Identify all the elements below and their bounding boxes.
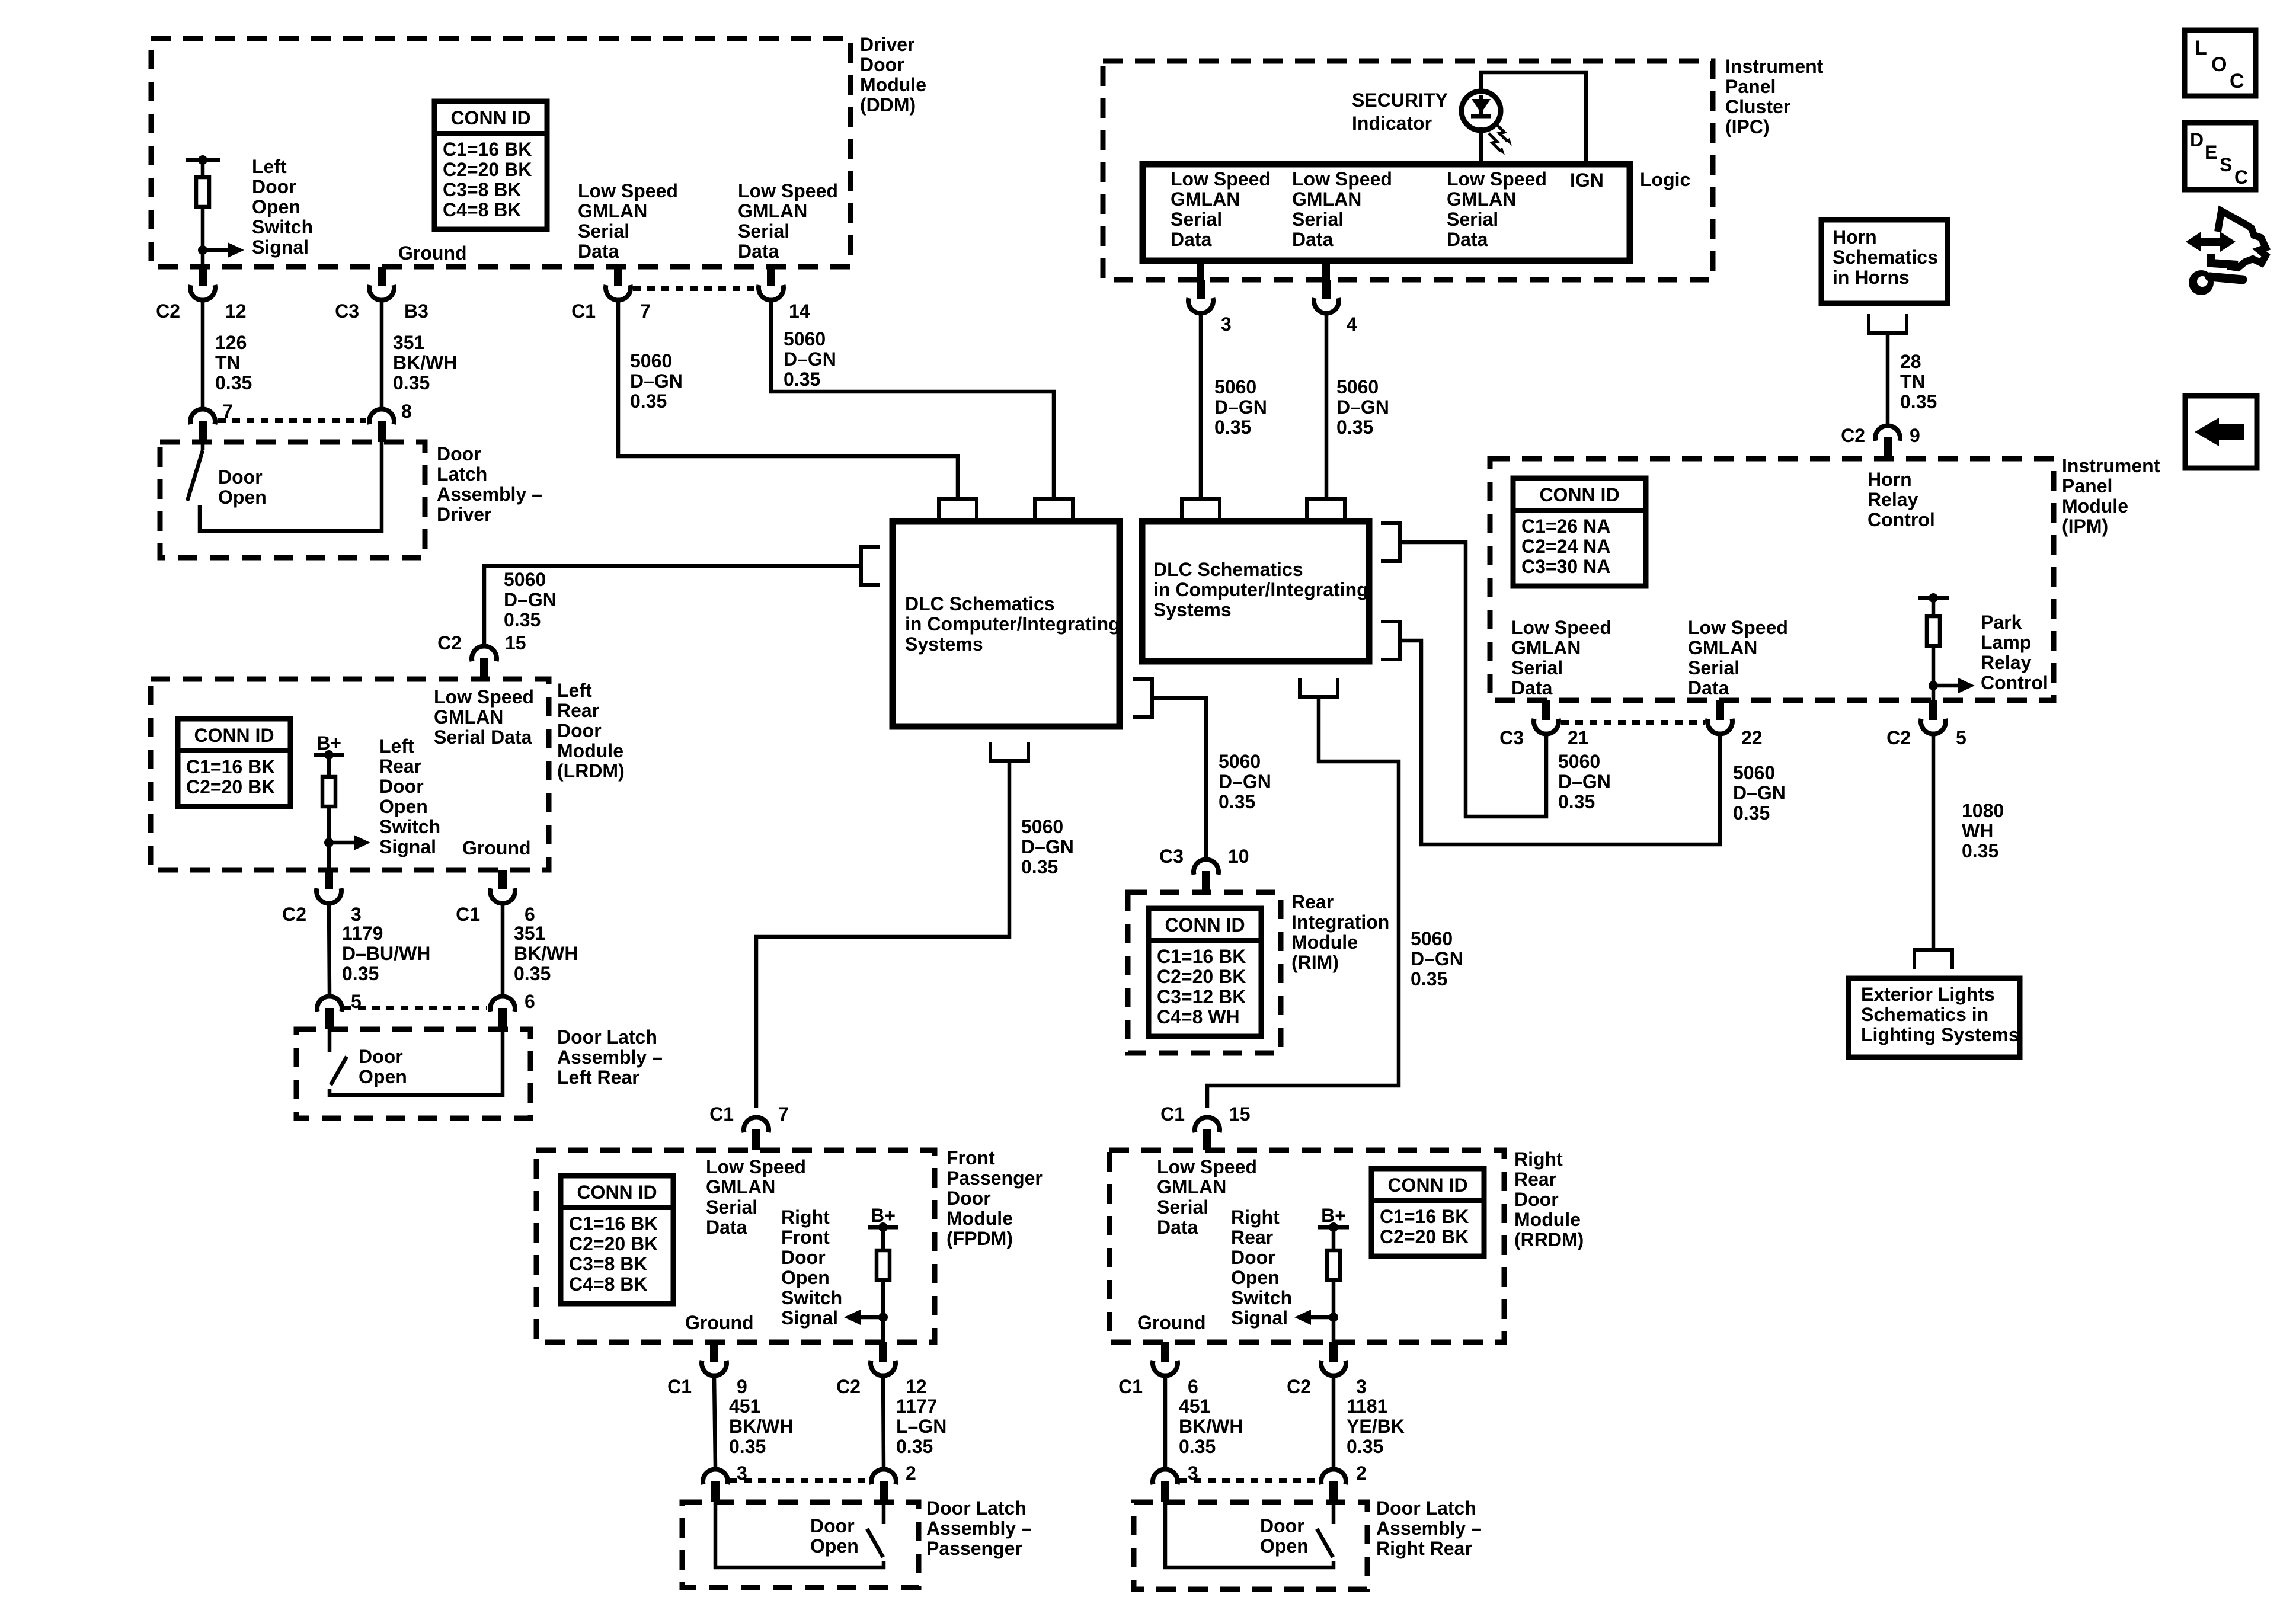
svg-text:C3=12 BK: C3=12 BK (1157, 986, 1246, 1007)
LOC icon box (2185, 30, 2256, 96)
connector C2 pin 3 (LRDM) (325, 870, 333, 889)
svg-text:C3: C3 (335, 300, 359, 322)
CONN ID table RIM (1149, 908, 1261, 1036)
svg-text:22: 22 (1741, 727, 1763, 748)
connector C3 pin 10 (RIM) (1202, 871, 1210, 892)
pin bracket horn box bottom (1869, 314, 1907, 333)
svg-text:C3=8 BK: C3=8 BK (443, 179, 522, 200)
pin bracket exterior lights box top (1914, 950, 1952, 969)
module box DLC Schematics 2 (1142, 521, 1369, 661)
signal arrow LRDM (329, 841, 357, 845)
wire 126 TN 0.35 (DDM pin12 to door latch) (201, 301, 205, 408)
svg-text:O: O (2211, 53, 2227, 76)
connector C1 pin 15 (RRDM) (1203, 1129, 1211, 1150)
svg-text:C4=8 BK: C4=8 BK (569, 1273, 648, 1295)
CONN ID table RRDM (1371, 1169, 1484, 1256)
svg-text:C2=20 BK: C2=20 BK (569, 1233, 658, 1254)
svg-text:C2=20 BK: C2=20 BK (1380, 1226, 1469, 1247)
wire 5060 D-GN 0.35 DLC2 bottom pin to RRDM C1-15 (1207, 697, 1399, 1108)
exterior lights box (1849, 978, 2020, 1057)
node FPDM signal junction (878, 1313, 888, 1322)
dotted connector line (door latch driver) (218, 418, 366, 423)
horn box (Horn Schematics in Horns) (1821, 220, 1948, 303)
dotted connector line (door latch passenger) (730, 1478, 868, 1483)
connector pin 3 (IPC) (1197, 280, 1205, 299)
connector pin 5 (door latch left rear) (325, 1008, 334, 1029)
logic box (IPC) (1143, 164, 1630, 261)
pin bracket DLC1 bottom (990, 742, 1028, 761)
svg-text:6: 6 (525, 904, 535, 925)
node LRDM signal junction (324, 838, 334, 847)
module box DDM (Driver Door Module) (151, 39, 850, 267)
module box Door Latch Assembly - Left Rear (296, 1029, 530, 1118)
connector pin 2 (door latch right rear) (1329, 1481, 1338, 1502)
svg-text:Ground: Ground (398, 242, 467, 264)
DESC icon box (2185, 123, 2256, 190)
svg-text:21: 21 (1568, 727, 1589, 748)
svg-text:Door LatchAssembly –Right Rear: Door LatchAssembly –Right Rear (1376, 1497, 1482, 1559)
svg-text:C2: C2 (836, 1376, 861, 1397)
connector pin 4 (IPC) (1322, 280, 1331, 299)
node park lamp junction (1929, 681, 1938, 690)
connector pin 8 (door latch driver) (378, 421, 386, 442)
LED light arrows (1496, 124, 1508, 142)
svg-text:2: 2 (906, 1462, 916, 1484)
wire 5060 D-GN 0.35 from DDM C1-7 to DLC splice (618, 301, 958, 499)
pin bracket DLC1 top B (1035, 499, 1073, 518)
svg-text:C1=16 BK: C1=16 BK (569, 1213, 658, 1234)
svg-text:6: 6 (525, 991, 535, 1012)
connector C1 pin 6 (LRDM ground) (498, 870, 507, 889)
svg-text:Ground: Ground (1137, 1312, 1206, 1333)
connector C2 pin 12 (FPDM) (879, 1342, 887, 1362)
svg-text:C1: C1 (667, 1376, 692, 1397)
door open switch (right rear latch) (1332, 1502, 1336, 1524)
svg-text:7: 7 (640, 300, 651, 322)
module box IPC (Instrument Panel Cluster) (1103, 61, 1713, 280)
svg-text:DoorOpen: DoorOpen (359, 1046, 407, 1087)
svg-text:IGN: IGN (1570, 169, 1604, 191)
door open switch (passenger latch) (882, 1502, 886, 1524)
svg-text:9: 9 (1910, 425, 1920, 446)
svg-text:C3: C3 (1159, 846, 1184, 867)
svg-text:C2=20 BK: C2=20 BK (443, 159, 532, 180)
park lamp resistor R-IPM (1932, 598, 1936, 616)
svg-text:C3=30 NA: C3=30 NA (1521, 556, 1610, 577)
svg-text:D: D (2190, 129, 2204, 151)
svg-text:15: 15 (505, 632, 526, 654)
connector C2 pin 9 (IPM horn) (1884, 437, 1892, 459)
svg-text:C3=8 BK: C3=8 BK (569, 1253, 648, 1275)
svg-text:C2=24 NA: C2=24 NA (1521, 536, 1610, 557)
wire 1080 WH 0.35 (1932, 735, 1936, 950)
svg-text:3: 3 (1221, 313, 1232, 335)
LED security indicator (1462, 91, 1501, 130)
connector C3 pin 21 (IPM) (1542, 700, 1550, 720)
pin bracket DLC1 right (1133, 679, 1152, 717)
wire 351 BK/WH 0.35 (DDM ground to door latch) (380, 301, 384, 408)
module box Door Latch Assembly - Passenger (682, 1502, 919, 1587)
signal arrow DDM (203, 248, 231, 252)
module box LRDM (Left Rear Door Module) (151, 679, 549, 870)
module box RIM (Rear Integration Module) (1128, 892, 1281, 1053)
node RRDM signal junction (1329, 1313, 1338, 1322)
svg-text:L: L (2195, 37, 2207, 59)
connector pin 7 (door latch driver) (199, 421, 207, 442)
svg-text:C3: C3 (1499, 727, 1524, 748)
module box Door Latch Assembly - Driver (160, 442, 425, 558)
left rear door open switch resistor R-LRDM (327, 755, 331, 777)
connector pin 6 (door latch left rear) (498, 1008, 507, 1029)
svg-text:CONN ID: CONN ID (1387, 1174, 1467, 1196)
svg-text:7: 7 (778, 1103, 789, 1125)
right rear door open switch resistor R-RRDM (1332, 1227, 1336, 1250)
svg-text:CONN ID: CONN ID (450, 107, 530, 129)
signal arrow FPDM (857, 1315, 883, 1320)
wire 451 BK/WH 0.35 (RRDM ground) (1163, 1377, 1168, 1467)
wire 5060 D-GN 0.35 IPC pin3 to DLC (1199, 314, 1203, 499)
svg-text:C1=16 BK: C1=16 BK (443, 139, 532, 160)
wire 1177 L-GN 0.35 (883, 1377, 884, 1467)
svg-text:DoorOpen: DoorOpen (810, 1515, 859, 1557)
wire 5060 D-GN 0.35 IPC pin4 to DLC (1325, 314, 1329, 499)
svg-text:DoorOpen: DoorOpen (1260, 1515, 1309, 1557)
svg-text:4: 4 (1347, 313, 1357, 335)
dotted connector line (door latch right rear) (1179, 1478, 1318, 1483)
svg-text:C1=26 NA: C1=26 NA (1521, 516, 1610, 537)
dotted connector line (door latch left rear) (344, 1006, 487, 1010)
park lamp relay control arrow (1933, 684, 1962, 688)
wire 5060 D-GN 0.35 DLC1 bottom pin to FPDM C1-7 (756, 761, 1009, 1108)
connector pin 3 (door latch passenger) (711, 1481, 720, 1502)
wire LED cathode to logic box (1479, 127, 1483, 164)
svg-text:CONN ID: CONN ID (194, 725, 274, 746)
connector C2 pin 12 (DDM) (199, 267, 207, 286)
connector pin 3 (door latch right rear) (1161, 1481, 1169, 1502)
pin stub IPC 4 (1322, 261, 1330, 280)
svg-text:C2: C2 (437, 632, 462, 654)
svg-text:C: C (2234, 167, 2248, 188)
vehicle diagnostic icon (arrow, car outline, wrench) (2199, 238, 2223, 246)
module box DLC Schematics 1 (893, 521, 1120, 726)
svg-text:CONN ID: CONN ID (577, 1182, 657, 1203)
pin stub IPC 3 (1197, 261, 1204, 280)
pin bracket DLC2 right A (1381, 523, 1400, 561)
svg-text:C4=8 BK: C4=8 BK (443, 199, 522, 220)
pin bracket DLC2 bottom (1300, 678, 1338, 697)
svg-text:Logic: Logic (1640, 169, 1690, 190)
dotted connector line (DDM GMLAN pins) (633, 286, 756, 291)
wire 351 BK/WH 0.35 (LRDM ground) (501, 904, 505, 994)
svg-text:CONN ID: CONN ID (1539, 484, 1619, 505)
connector C3 pin B3 (DDM ground) (378, 267, 386, 286)
wire 1179 D-BU/WH 0.35 (329, 904, 330, 994)
svg-text:12: 12 (225, 300, 247, 322)
module box RRDM (Right Rear Door Module) (1109, 1150, 1504, 1342)
wire DDM switch to signal node (201, 207, 205, 267)
wire 451 BK/WH 0.35 (FPDM ground) (714, 1377, 715, 1467)
svg-text:C1: C1 (709, 1103, 734, 1125)
connector C1 pin 7 (DDM GMLAN) (614, 267, 622, 286)
svg-text:Ground: Ground (462, 837, 531, 859)
svg-text:C1: C1 (1118, 1376, 1143, 1397)
svg-text:Indicator: Indicator (1352, 113, 1432, 134)
CONN ID table DDM (434, 101, 547, 229)
pin bracket DLC2 top A (1182, 499, 1220, 518)
CONN ID table LRDM (178, 719, 290, 806)
svg-text:C1=16 BK: C1=16 BK (1157, 946, 1246, 967)
svg-text:C1=16 BK: C1=16 BK (186, 756, 275, 777)
svg-text:S: S (2220, 154, 2232, 175)
connector C2 pin 5 (IPM park lamp) (1929, 700, 1937, 720)
svg-text:Door LatchAssembly –Passenger: Door LatchAssembly –Passenger (926, 1497, 1032, 1559)
connector C1 pin 7 (FPDM) (752, 1129, 760, 1150)
wire 1181 YE/BK 0.35 (1332, 1377, 1336, 1467)
CONN ID table FPDM (561, 1176, 673, 1304)
signal arrow RRDM (1307, 1315, 1334, 1320)
svg-text:2: 2 (1356, 1462, 1367, 1484)
park lamp supply bar (IPM) (1918, 596, 1949, 600)
svg-text:C2: C2 (282, 904, 306, 925)
CONN ID table IPM (1513, 478, 1646, 586)
svg-text:9: 9 (737, 1376, 747, 1397)
dotted connector line (IPM GMLAN pins) (1561, 720, 1705, 725)
svg-text:3: 3 (351, 904, 362, 925)
wire 5060 D-GN 0.35 DLC1 right pin to RIM C3-10 (1152, 698, 1206, 859)
connector C2 pin 3 (RRDM) (1329, 1342, 1338, 1362)
svg-text:Ground: Ground (685, 1312, 754, 1333)
svg-text:12: 12 (906, 1376, 927, 1397)
door open switch (left rear latch) (328, 1029, 332, 1052)
svg-text:C1=16 BK: C1=16 BK (1380, 1206, 1469, 1227)
svg-text:10: 10 (1228, 846, 1249, 867)
svg-text:SECURITY: SECURITY (1352, 89, 1448, 111)
connector C1 pin 6 (RRDM ground) (1161, 1342, 1169, 1362)
svg-text:C1: C1 (571, 300, 596, 322)
wire 5060 D-GN 0.35 IPM C3-21 to DLC2 (1400, 542, 1546, 817)
svg-text:DoorOpen: DoorOpen (218, 466, 267, 508)
pin bracket DLC2 right B (1381, 622, 1400, 660)
svg-text:C: C (2230, 70, 2244, 92)
svg-text:C2: C2 (156, 300, 180, 322)
module box Door Latch Assembly - Right Rear (1134, 1502, 1367, 1589)
wire 5060 D-GN 0.35 from DDM pin14 to DLC splice (771, 301, 1054, 499)
wire 5060 D-GN 0.35 IPM 22 to DLC2 (1400, 641, 1720, 844)
svg-text:C2: C2 (1841, 425, 1865, 446)
connector C1 pin 9 (FPDM ground) (710, 1342, 718, 1362)
module box IPM (Instrument Panel Module) (1490, 459, 2054, 700)
pin bracket DLC2 top B (1307, 499, 1345, 518)
connector pin 22 (IPM) (1716, 700, 1724, 720)
svg-text:C1: C1 (456, 904, 480, 925)
node DDM signal junction (198, 245, 207, 255)
svg-text:C1: C1 (1160, 1103, 1185, 1125)
pin bracket DLC1 left (861, 547, 880, 585)
svg-text:15: 15 (1229, 1103, 1251, 1125)
right front door open switch resistor R-FPDM (881, 1227, 885, 1250)
connector pin 2 (door latch passenger) (880, 1481, 888, 1502)
svg-text:6: 6 (1188, 1376, 1198, 1397)
connector C2 pin 15 (LRDM) (480, 658, 488, 679)
svg-text:B3: B3 (404, 300, 428, 322)
pin bracket DLC1 top A (939, 499, 977, 518)
door open switch (driver latch) (201, 442, 205, 450)
svg-text:8: 8 (401, 401, 412, 422)
svg-text:C2=20 BK: C2=20 BK (1157, 966, 1246, 987)
wire 5060 D-GN 0.35 DLC1 left pin to LRDM C2-15 (484, 566, 861, 646)
svg-text:C2: C2 (1886, 727, 1911, 748)
svg-text:C2=20 BK: C2=20 BK (186, 776, 275, 798)
wire LED supply loop (IPC) (1481, 72, 1586, 164)
svg-text:E: E (2205, 142, 2217, 163)
svg-text:CONN ID: CONN ID (1165, 914, 1245, 936)
svg-text:5: 5 (1956, 727, 1966, 748)
svg-text:14: 14 (789, 300, 810, 322)
wire 28 TN 0.35 horn to IPM C2-9 (1886, 333, 1890, 425)
svg-text:C2: C2 (1287, 1376, 1311, 1397)
connector pin 14 (DDM GMLAN) (767, 267, 775, 286)
svg-text:3: 3 (1356, 1376, 1367, 1397)
back arrow icon box (2185, 396, 2257, 468)
module box FPDM (Front Passenger Door Module) (536, 1150, 935, 1342)
svg-text:C4=8 WH: C4=8 WH (1157, 1006, 1240, 1028)
left door open switch pull-up resistor R-DDM (186, 158, 220, 162)
